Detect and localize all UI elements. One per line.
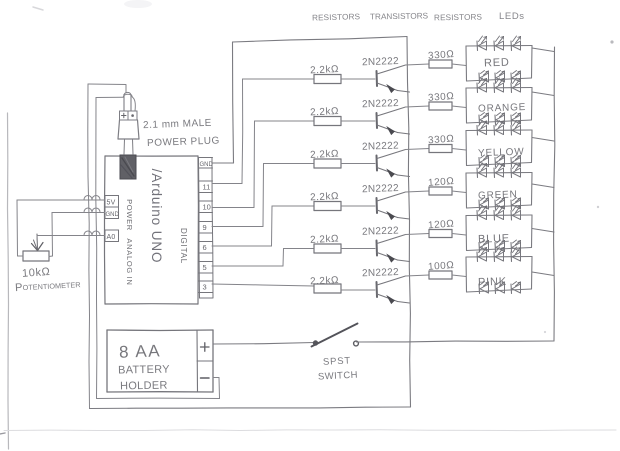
wire series resistor to LED group row 3 [452,149,466,151]
potentiometer 10k body [23,251,49,261]
svg-text:YELLOW: YELLOW [478,147,525,160]
transistor 2N2222 Q6 [377,276,410,304]
svg-text:SPST: SPST [323,355,352,367]
resistor 2.2k row 5 [314,244,341,253]
Arduino right pin header strip [199,158,214,299]
wire collector to series resistor row 1 [406,64,430,65]
svg-text:GND: GND [200,162,214,168]
label 120&#937; row 4 [428,176,455,189]
svg-text:ORANGE: ORANGE [478,102,526,115]
LED GREEN D42 (top branch) [494,163,504,178]
LED group GREEN row 4 [466,173,532,209]
wire base resistor to transistor row 5 [341,248,375,250]
wire A0 pin to potentiometer wiper [37,231,105,240]
LED BLUE D53 (top branch) [511,206,521,221]
wire Arduino GND pin to top ground rail [212,37,407,164]
LED BLUE D52 (top branch) [494,206,504,221]
svg-text:2.2kΩ: 2.2kΩ [310,64,339,76]
svg-text:GREEN: GREEN [478,189,518,201]
wire Arduino pin to base resistor row 4 [212,206,314,246]
LED group PINK row 6 [466,257,532,293]
Arduino pin A0 [105,230,119,242]
wire GND pin to potentiometer right terminal [49,208,105,257]
Arduino pin 9 (right) [199,222,213,234]
LED ORANGE D21 (top branch) [477,78,487,93]
svg-text:2.2kΩ: 2.2kΩ [310,191,339,203]
LED PINK D61 (top branch) [477,247,487,262]
wire battery minus to plug sleeve lead [97,378,220,399]
svg-text:330Ω: 330Ω [428,134,455,147]
svg-text:2.2kΩ: 2.2kΩ [310,148,339,160]
wire LED group BLUE to positive bus [532,229,554,233]
wire series resistor to LED group row 1 [452,64,466,66]
wire LED group GREEN to positive bus [532,184,554,188]
label 2.2k row 5 [310,233,339,245]
wire Arduino pin to base resistor row 6 [212,284,314,286]
wire collector to series resistor row 2 [406,106,430,107]
svg-text:2N2222: 2N2222 [362,183,399,195]
LED RED D14 (bottom branch) [479,71,489,83]
label 2N2222 row 3 [362,140,399,152]
LED ORANGE D26 (bottom branch) [511,113,521,125]
svg-text:8 AA: 8 AA [119,341,162,361]
svg-text:GND: GND [106,212,120,218]
LED BLUE D56 (bottom branch) [511,240,521,252]
resistor 120&#937; row 5 [429,230,452,238]
svg-text:330Ω: 330Ω [428,49,455,62]
potentiometer label 10kΩ [15,266,81,294]
svg-text:2N2222: 2N2222 [362,56,399,68]
transistor 2N2222 Q5 [377,235,410,263]
svg-text:LEDs: LEDs [499,11,525,22]
wire switch to LED positive bus [357,341,555,342]
wire base resistor to transistor row 3 [341,163,375,165]
LED RED D12 (top branch) [494,36,504,51]
wire series resistor to LED group row 5 [452,234,466,236]
svg-text:DIGITAL: DIGITAL [179,228,188,264]
resistor 100&#937; row 6 [429,271,452,279]
label 2.2k row 3 [310,148,339,160]
label 2.2k row 4 [310,191,339,203]
svg-text:2N2222: 2N2222 [362,140,399,152]
switch label [318,355,358,382]
Arduino pin 10 (right) [199,201,213,213]
label GREEN [478,189,518,201]
LED RED D13 (top branch) [511,36,521,51]
LED positive bus (right vertical) [554,47,555,341]
wire Arduino pin to base resistor row 1 [212,79,314,184]
transistor 2N2222 Q3 [377,150,410,178]
svg-text:BLUE: BLUE [478,233,510,246]
LED YELLOW D36 (bottom branch) [511,155,521,167]
svg-text:ANALOG IN: ANALOG IN [125,238,134,285]
LED RED D11 (top branch) [477,36,487,51]
battery plus terminal [201,343,210,351]
wire Arduino pin to base resistor row 3 [212,164,314,227]
label 2N2222 row 1 [362,56,399,68]
LED PINK D62 (top branch) [494,247,504,262]
svg-text:SWITCH: SWITCH [318,370,358,383]
svg-text:POWER: POWER [125,199,134,231]
svg-text:2N2222: 2N2222 [362,267,399,279]
label 330&#937; row 1 [428,49,455,62]
LED ORANGE D25 (bottom branch) [495,113,505,125]
LED GREEN D46 (bottom branch) [511,198,521,210]
LED RED D16 (bottom branch) [511,71,521,83]
label 2.2k row 2 [310,106,339,118]
svg-text:5: 5 [203,263,207,272]
wire battery plus to switch [213,343,314,345]
wire plug sleeve lead to battery minus (left inner) [96,94,136,398]
bottom ground return wire [90,407,411,409]
resistor 2.2k row 2 [314,117,341,126]
svg-text:2N2222: 2N2222 [362,98,399,110]
wire LED group PINK to positive bus [532,272,554,276]
Arduino pin 5V [105,196,119,208]
wire series resistor to LED group row 6 [452,275,466,277]
label BLUE [478,233,510,246]
svg-text:9: 9 [203,223,207,232]
LED BLUE D54 (bottom branch) [479,240,489,252]
LED PINK D66 (bottom branch) [511,282,521,294]
resistor 2.2k row 4 [314,202,341,211]
label 2N2222 row 5 [362,225,399,237]
transistor 2N2222 Q2 [377,107,410,135]
SPST switch SW1 [312,324,359,347]
LED YELLOW D32 (top branch) [494,121,504,136]
label 2.2k row 1 [310,64,339,76]
wire 5V pin to potentiometer left terminal [17,196,105,257]
2.1mm male power plug J1 [118,92,139,154]
LED GREEN D44 (bottom branch) [479,198,489,210]
wire base resistor to transistor row 6 [341,289,375,291]
svg-text:/Arduino UNO: /Arduino UNO [149,169,164,264]
LED PINK D65 (bottom branch) [495,282,505,294]
potentiometer wiper arrow [32,234,44,251]
label 120&#937; row 5 [428,219,455,232]
Arduino pin 11 (right) [199,181,213,193]
LED ORANGE D23 (top branch) [511,78,521,93]
label YELLOW [478,147,525,160]
LED YELLOW D34 (bottom branch) [479,155,489,167]
LED GREEN D45 (bottom branch) [495,198,505,210]
wire LED group RED to positive bus [532,48,554,52]
wire Arduino pin to base resistor row 5 [212,249,314,267]
svg-text:RESISTORS: RESISTORS [434,13,483,23]
resistor 2.2k row 6 [314,284,341,293]
LED ORANGE D24 (bottom branch) [479,113,489,125]
wire base resistor to transistor row 4 [341,205,375,207]
LED group YELLOW row 3 [466,130,532,166]
svg-text:3: 3 [203,283,207,292]
LED YELLOW D31 (top branch) [477,121,487,136]
label ORANGE [478,102,526,115]
resistor 330&#937; row 2 [429,102,452,110]
svg-text:2.2kΩ: 2.2kΩ [310,233,339,245]
svg-text:PINK: PINK [478,276,507,289]
wire plug tip lead to ground return (left outer) [88,84,126,409]
resistor 2.2k row 1 [314,75,341,84]
wire LED group YELLOW to positive bus [532,138,554,142]
svg-text:10kΩ: 10kΩ [22,266,51,280]
svg-text:2.2kΩ: 2.2kΩ [310,106,339,118]
svg-text:100Ω: 100Ω [428,260,455,273]
label PINK [478,276,507,289]
svg-text:6: 6 [203,243,207,252]
wire series resistor to LED group row 2 [452,106,466,108]
LED ORANGE D22 (top branch) [494,78,504,93]
svg-text:120Ω: 120Ω [428,219,455,232]
battery 8xAA holder BT1 [107,330,213,392]
svg-text:A0: A0 [107,234,116,241]
svg-text:2N2222: 2N2222 [362,225,399,237]
svg-text:RESISTORS: RESISTORS [312,12,361,22]
LED group ORANGE row 2 [466,88,532,124]
transistor 2N2222 Q1 [377,65,410,93]
LED BLUE D51 (top branch) [477,206,487,221]
resistor 330&#937; row 3 [429,145,452,153]
wire Arduino pin to base resistor row 2 [212,121,314,208]
LED YELLOW D35 (bottom branch) [495,155,505,167]
LED PINK D64 (bottom branch) [479,282,489,294]
emitter ground bus (vertical) [407,37,411,408]
svg-text:10: 10 [203,203,211,212]
Arduino label text [125,169,188,286]
LED YELLOW D33 (top branch) [511,121,521,136]
wire collector to series resistor row 5 [406,234,430,235]
wire base resistor to transistor row 1 [341,78,375,80]
battery label [118,341,170,392]
label 330&#937; row 3 [428,134,455,147]
transistor 2N2222 Q4 [377,192,410,220]
battery minus terminal [201,377,210,379]
svg-text:RED: RED [484,57,510,70]
LED BLUE D55 (bottom branch) [495,240,505,252]
LED RED D15 (bottom branch) [495,71,505,83]
svg-text:HOLDER: HOLDER [120,380,168,393]
Arduino pin GND (left) [105,207,120,219]
LED GREEN D43 (top branch) [511,163,521,178]
label 330&#937; row 2 [428,91,455,104]
wire collector to series resistor row 3 [406,149,430,150]
svg-text:11: 11 [203,183,211,192]
Arduino pin 5 (right) [199,262,213,274]
wire collector to series resistor row 4 [406,191,430,192]
Arduino power jack [120,155,136,179]
label 2.2k row 6 [310,275,339,287]
LED GREEN D41 (top branch) [477,163,487,178]
label RED [484,57,510,70]
label 2N2222 row 4 [362,183,399,195]
Arduino UNO U1 body [105,156,199,304]
wire base resistor to transistor row 2 [341,120,375,122]
column header labels [312,11,525,22]
Arduino pin 6 (right) [199,242,213,254]
svg-text:330Ω: 330Ω [428,91,455,104]
svg-text:TRANSISTORS: TRANSISTORS [370,11,429,21]
LED PINK D63 (top branch) [511,247,521,262]
LED group RED row 1 [466,46,532,82]
svg-text:5V: 5V [107,200,116,207]
svg-text:BATTERY: BATTERY [118,364,170,377]
resistor 120&#937; row 4 [429,187,452,195]
svg-text:120Ω: 120Ω [428,176,455,189]
wire LED group ORANGE to positive bus [532,92,554,96]
label 2N2222 row 6 [362,267,399,279]
LED group BLUE row 5 [466,215,532,251]
resistor 2.2k row 3 [314,159,341,168]
Arduino pin 3 (right) [199,281,213,293]
power plug label [143,118,220,149]
Arduino pin GND (right) [199,158,214,169]
resistor 330&#937; row 1 [429,60,452,68]
label 100&#937; row 6 [428,260,455,273]
svg-text:2.2kΩ: 2.2kΩ [310,275,339,287]
wire collector to series resistor row 6 [406,275,430,276]
wire series resistor to LED group row 4 [452,191,466,193]
label 2N2222 row 2 [362,98,399,110]
